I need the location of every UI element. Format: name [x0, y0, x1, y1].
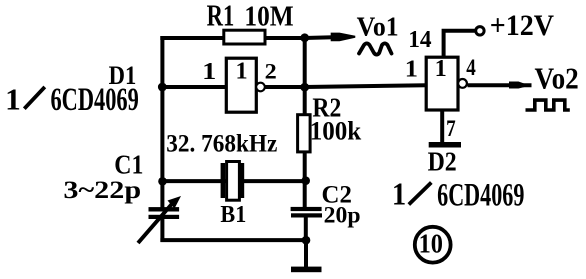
svg-text:B1: B1 — [220, 201, 246, 228]
svg-text:6CD4069: 6CD4069 — [50, 82, 138, 118]
svg-text:1: 1 — [235, 57, 247, 84]
svg-text:1: 1 — [405, 54, 418, 82]
svg-text:7: 7 — [446, 115, 456, 141]
svg-text:6CD4069: 6CD4069 — [437, 177, 524, 213]
svg-text:32. 768kHz: 32. 768kHz — [166, 130, 277, 158]
svg-text:C1: C1 — [114, 149, 143, 180]
svg-text:10M: 10M — [244, 0, 293, 32]
svg-text:1: 1 — [202, 57, 216, 85]
svg-text:20p: 20p — [324, 203, 361, 229]
svg-text:2: 2 — [265, 59, 277, 84]
svg-text:10: 10 — [419, 228, 443, 259]
svg-text:3~22p: 3~22p — [63, 176, 141, 204]
svg-text:4: 4 — [466, 54, 476, 80]
svg-text:Vo2: Vo2 — [534, 62, 578, 96]
svg-text:100k: 100k — [310, 116, 362, 145]
svg-text:1: 1 — [392, 176, 406, 212]
svg-text:D2: D2 — [428, 146, 457, 177]
svg-text:1: 1 — [435, 55, 447, 82]
svg-text:+12V: +12V — [490, 9, 554, 42]
svg-text:1: 1 — [5, 82, 21, 117]
svg-text:Vo1: Vo1 — [357, 11, 399, 42]
svg-text:14: 14 — [408, 26, 431, 53]
svg-text:R1: R1 — [207, 0, 235, 32]
